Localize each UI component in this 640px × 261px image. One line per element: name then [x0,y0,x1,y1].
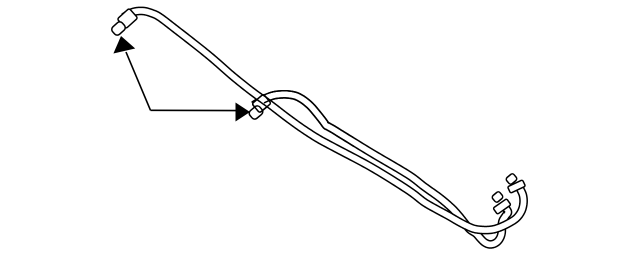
fitting nut F2 outline restroke [252,94,271,113]
fitting cap F2 [248,104,264,120]
fitting cap F1 [110,20,126,36]
tube 2 (hose from middle fitting, goes over hump, down to U-loop and lower-left end fitting) [252,91,512,248]
callout arrow to F2 [151,109,239,111]
fitting nut FA [508,180,526,193]
fitting nut F1 (top-left connector) [117,8,138,28]
tube 2 hump restroke [265,98,354,146]
tube 1 (hose from top-left fitting down to upper-right end fitting) [122,7,527,233]
callout arrow to F1 [126,52,151,110]
fitting cap FA [505,173,517,185]
fitting nut FB [493,199,511,215]
fitting nut F2 (middle connector) [252,94,271,113]
fitting cap FB [491,191,503,203]
